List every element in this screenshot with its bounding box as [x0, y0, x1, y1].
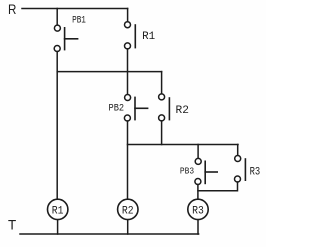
contact R3 (NO) terminals: [235, 156, 241, 183]
svg-text:R1: R1: [52, 205, 64, 217]
svg-text:R2: R2: [122, 205, 134, 217]
contact R1 bar: [134, 25, 136, 48]
wire PB2 down through rail3 to lamp R2: [127, 121, 129, 199]
contact R1 (NO) terminals: [125, 22, 131, 49]
lamp R1: [48, 199, 68, 219]
pushbutton PB3 actuator: [205, 161, 217, 183]
wire bottom T rail: [20, 233, 199, 235]
pushbutton PB1 actuator: [65, 28, 78, 50]
lamp R2: [118, 199, 138, 219]
svg-text:T: T: [8, 216, 17, 232]
wire R2 drop from rail2: [161, 72, 163, 94]
svg-text:R: R: [8, 1, 16, 17]
svg-text:R3: R3: [192, 205, 204, 217]
contact R2 (NO) terminals: [159, 94, 165, 121]
svg-text:PB3: PB3: [180, 166, 194, 176]
pushbutton PB3 (NO) terminals: [195, 158, 201, 184]
wire PB3 drop from rail3: [197, 145, 199, 159]
contact R2 bar: [168, 98, 170, 120]
wire top R rail: [22, 8, 128, 10]
svg-text:R2: R2: [176, 105, 190, 117]
wire lamp R2 to T rail: [127, 220, 129, 234]
wire R2 contact down to rail3: [161, 121, 163, 145]
svg-text:PB1: PB1: [72, 16, 86, 27]
pushbutton PB1 (NO) terminals: [54, 25, 60, 51]
wire R1 contact down through rail2 to PB2: [127, 49, 129, 95]
wire rail 3 (PB2/R2 junction rail): [128, 144, 239, 146]
wire lamp R3 to T rail: [197, 220, 199, 234]
wire R3 contact corner to PB3 branch: [198, 182, 238, 191]
svg-text:R3: R3: [250, 167, 261, 179]
contact R3 bar: [244, 159, 246, 180]
wire lamp R1 to T rail: [57, 220, 59, 234]
svg-text:R1: R1: [142, 31, 155, 43]
lamp R3: [188, 199, 208, 219]
pushbutton PB2 actuator: [135, 97, 148, 119]
svg-text:PB2: PB2: [109, 102, 125, 113]
wire PB1 drop from R rail: [56, 9, 58, 26]
wire R3 drop from rail3: [237, 145, 239, 156]
pushbutton PB2 (NO) terminals: [124, 95, 130, 122]
wire left vertical (PB1 to lamp R1): [56, 52, 58, 200]
wire PB3 down to lamp R3: [197, 185, 199, 200]
wire R1 drop from R rail: [127, 9, 129, 22]
wire rail 2 (PB1/R1 junction rail): [57, 71, 161, 73]
